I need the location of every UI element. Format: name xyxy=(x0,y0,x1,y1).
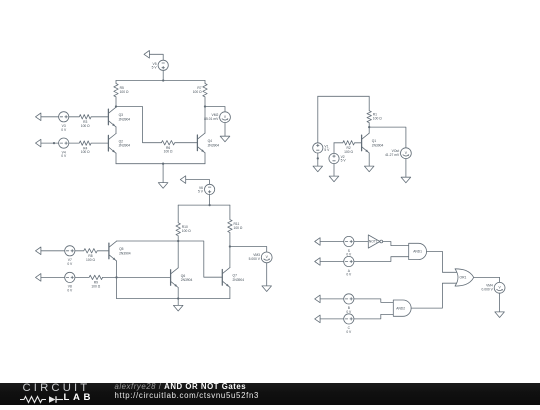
wire bottom rail C3 xyxy=(117,298,230,300)
wire OR1 to VM4 xyxy=(474,277,500,282)
transistor Q5 2N3904 xyxy=(109,241,131,261)
svg-text:100 Ω: 100 Ω xyxy=(91,284,100,288)
svg-text:NOT1: NOT1 xyxy=(369,240,378,244)
wire Q5 emitter down xyxy=(116,261,118,299)
ground VM3 xyxy=(262,286,272,292)
svg-text:100 Ω: 100 Ω xyxy=(81,150,90,154)
svg-text:0 V: 0 V xyxy=(346,330,352,334)
svg-text:2N3904: 2N3904 xyxy=(119,144,131,148)
voltage source V6 5V xyxy=(198,184,215,194)
wire AND2 to OR1 in2 xyxy=(411,283,457,308)
svg-text:100 Ω: 100 Ω xyxy=(164,150,173,154)
net flag V7 input xyxy=(36,247,41,255)
CircuitLab logo text LAB xyxy=(64,392,95,403)
footer bar xyxy=(0,383,540,405)
logo resistor zigzag xyxy=(20,397,46,403)
resistor R4 100 xyxy=(69,141,109,154)
voltage source V2 5V xyxy=(329,153,346,163)
voltage source V3 0V xyxy=(59,112,69,132)
voltage source A 0V xyxy=(344,256,354,276)
wire Q2 emitter down xyxy=(115,153,117,164)
wire Q7 collector up xyxy=(229,247,231,268)
svg-text:41.27 mV: 41.27 mV xyxy=(385,153,400,157)
junction dot below V1 xyxy=(317,157,319,159)
net flag V8 input xyxy=(36,274,41,282)
wire C to AND2 in2 xyxy=(354,314,393,319)
svg-text:5 V: 5 V xyxy=(324,148,330,152)
ground V2 xyxy=(329,176,339,182)
junction Q4 collector node xyxy=(204,105,206,107)
voltage source V7 0V xyxy=(65,246,75,266)
svg-text:2N3904: 2N3904 xyxy=(119,117,131,121)
wire V1 up xyxy=(317,96,319,143)
svg-text:5.000 V: 5.000 V xyxy=(249,257,261,261)
svg-text:0 V: 0 V xyxy=(346,253,352,257)
wire V5 flag to source xyxy=(149,54,163,60)
wire V2 to ground xyxy=(333,164,335,177)
wire VM2 tap xyxy=(205,107,225,112)
svg-text:5 V: 5 V xyxy=(198,190,204,194)
wire bottom rail C1 xyxy=(116,163,205,165)
wire V7 flag xyxy=(41,250,65,252)
wire VM2 to ground xyxy=(224,123,226,137)
svg-text:2N3904: 2N3904 xyxy=(233,278,245,282)
transistor Q2 2N3904 xyxy=(108,134,130,154)
junction OR output node xyxy=(229,245,231,247)
svg-text:0 V: 0 V xyxy=(67,288,73,292)
svg-text:100 Ω: 100 Ω xyxy=(86,258,95,262)
voltmeter VM2 85.01mV xyxy=(204,112,230,123)
wire B to AND2 in1 xyxy=(354,299,393,303)
voltage source V5 5V xyxy=(152,60,169,70)
wire V2 up xyxy=(333,143,335,154)
junction ground rail C3 xyxy=(177,297,179,299)
net flag input A xyxy=(315,258,320,266)
resistor R9 100 xyxy=(75,275,103,288)
svg-text:0 V: 0 V xyxy=(61,154,67,158)
svg-text:0.000 V: 0.000 V xyxy=(482,287,494,291)
wire Q4 emitter down xyxy=(204,153,206,164)
svg-text:OR1: OR1 xyxy=(460,276,467,280)
svg-text:2N3904: 2N3904 xyxy=(208,143,220,147)
wire V5 to top rail xyxy=(162,70,164,80)
wire Q6 collector up xyxy=(177,241,179,268)
resistor R10 100 xyxy=(176,205,191,241)
voltage source C 0V xyxy=(344,314,354,334)
voltmeter VOut 41.27mV xyxy=(385,148,411,159)
wire top rail C2 xyxy=(318,95,369,97)
wire S to NOT1 xyxy=(354,241,368,243)
resistor R8 100 xyxy=(75,249,109,262)
resistor R3 100 xyxy=(69,115,109,128)
ground Q1 xyxy=(364,166,374,172)
junction ground rail C1 xyxy=(162,163,164,165)
junction V5-rail xyxy=(162,79,164,81)
junction Q5 emitter / input B xyxy=(115,276,117,278)
wire V6 flag to source xyxy=(186,180,210,185)
voltage source V8 0V xyxy=(65,272,75,292)
ground C3 xyxy=(173,305,183,311)
transistor Q3 2N3904 xyxy=(108,107,130,127)
net flag input B xyxy=(315,295,320,303)
net flag input S xyxy=(315,238,320,246)
wire input S flag xyxy=(320,241,344,243)
CircuitLab logo resistor-diode symbol xyxy=(19,395,64,404)
svg-text:AND1: AND1 xyxy=(413,250,422,254)
wire V1 to ground xyxy=(317,153,319,166)
transistor Q1 2N3904 xyxy=(362,133,384,153)
wire Q4 collector up xyxy=(204,107,206,134)
wire input B flag xyxy=(320,298,344,300)
ground VM2 xyxy=(220,136,230,142)
svg-text:100 Ω: 100 Ω xyxy=(81,124,90,128)
and-gate AND1 xyxy=(409,243,427,259)
inverter NOT1 xyxy=(368,235,382,248)
svg-text:100 Ω: 100 Ω xyxy=(234,226,243,230)
resistor R6 100 xyxy=(161,141,197,154)
wire Q1 collector up xyxy=(368,127,370,133)
wire to ground C1 xyxy=(162,164,164,183)
wire Q6 emitter down xyxy=(177,288,179,299)
wire V4 flag xyxy=(41,142,59,144)
svg-text:0 V: 0 V xyxy=(67,262,73,266)
wire top rail C1 xyxy=(116,80,205,82)
voltage source S 0V xyxy=(344,236,354,256)
wire VOut to ground xyxy=(405,159,407,178)
voltage source V1 5V xyxy=(313,143,330,153)
junction dot V4 wire xyxy=(53,142,55,144)
wire to ground C3 xyxy=(177,299,179,306)
svg-text:100 Ω: 100 Ω xyxy=(182,229,191,233)
net flag input C xyxy=(315,315,320,323)
wire VM4 to ground xyxy=(499,293,501,312)
wire Q7 emitter down xyxy=(229,287,231,298)
wire NOR node to Q7 base xyxy=(117,241,223,277)
svg-text:2N3904: 2N3904 xyxy=(181,278,193,282)
wire VM3 tap xyxy=(230,247,267,253)
svg-text:0 V: 0 V xyxy=(346,310,352,314)
svg-text:100 Ω: 100 Ω xyxy=(193,90,202,94)
junction NOR node xyxy=(177,240,179,242)
wire A to AND1 in2 xyxy=(354,257,409,262)
svg-text:AND2: AND2 xyxy=(396,306,405,310)
wire V3 flag xyxy=(41,116,59,118)
footer credit text xyxy=(115,383,260,400)
net flag V5 xyxy=(144,51,149,59)
svg-text:0 V: 0 V xyxy=(61,128,67,132)
voltmeter VM4 0.000V xyxy=(482,282,505,293)
voltage source B 0V xyxy=(344,294,354,314)
net flag V4 input B xyxy=(36,139,41,147)
junction Q1 collector node xyxy=(368,126,370,128)
svg-text:2N3904: 2N3904 xyxy=(372,143,384,147)
net flag V6 xyxy=(180,176,185,184)
wire input C flag xyxy=(320,318,344,320)
junction V6-rail xyxy=(208,204,210,206)
wire node to VOut xyxy=(369,127,406,148)
wire AND1 to OR1 in1 xyxy=(427,251,457,272)
resistor R11 100 xyxy=(228,205,243,246)
svg-text:85.01 mV: 85.01 mV xyxy=(204,117,219,121)
svg-text:100 Ω: 100 Ω xyxy=(120,90,129,94)
wire V8 flag xyxy=(41,276,65,278)
voltmeter VM3 5.000V xyxy=(249,252,272,263)
resistor R5 100 xyxy=(114,81,129,107)
transistor Q7 2N3904 xyxy=(222,268,244,288)
ground C1 xyxy=(158,183,168,189)
wire NOT1 to AND1 in1 xyxy=(383,242,409,246)
svg-text:100 Ω: 100 Ω xyxy=(373,117,382,121)
svg-text:100 Ω: 100 Ω xyxy=(344,150,353,154)
voltage source V4 0V xyxy=(59,138,69,158)
transistor Q6 2N3904 xyxy=(171,268,193,288)
resistor R1 100 xyxy=(367,96,382,127)
svg-text:0 V: 0 V xyxy=(346,273,352,277)
wire Q1 emitter down xyxy=(368,153,370,166)
svg-text:5 V: 5 V xyxy=(152,66,158,70)
ground VOut xyxy=(401,177,411,183)
wire R9 to Q6 base xyxy=(103,276,171,278)
wire Q3 collector xyxy=(115,106,117,109)
wire Q3 emitter to Q2 collector xyxy=(115,127,117,134)
net flag V3 input A xyxy=(36,113,41,121)
svg-text:5 V: 5 V xyxy=(341,159,347,163)
svg-text:2N3904: 2N3904 xyxy=(119,251,131,255)
or-gate OR1 xyxy=(455,269,474,286)
and-gate AND2 xyxy=(393,300,411,316)
wire top rail C3 xyxy=(178,204,230,206)
ground V1 xyxy=(313,166,323,172)
logo diode xyxy=(49,396,56,403)
wire VM3 to ground xyxy=(266,263,268,286)
wire input A flag xyxy=(320,261,344,263)
wire V6 to rail xyxy=(209,195,211,206)
junction NAND node xyxy=(115,105,117,107)
resistor R7 100 xyxy=(193,81,207,107)
transistor Q4 2N3904 xyxy=(197,133,219,153)
resistor R2 100 xyxy=(334,141,362,154)
ground VM4 xyxy=(495,312,505,318)
CircuitLab logo text CIRCUIT xyxy=(23,382,91,394)
wire NAND node to R6 xyxy=(116,107,161,143)
